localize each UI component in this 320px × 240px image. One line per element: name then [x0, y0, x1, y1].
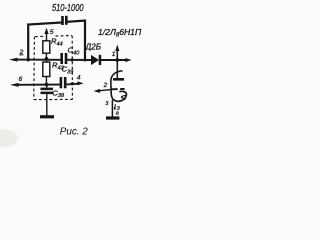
resistor R43 — [43, 62, 50, 77]
terminal arrow 6 (left) — [10, 83, 19, 87]
node dot at box edge on row A — [70, 58, 73, 61]
node dot at box edge on row B — [71, 82, 74, 85]
terminal arrow 5 (up from R44) — [46, 31, 48, 41]
wire row A (node 2 line) — [14, 59, 61, 61]
terminal arrow 4 (right) — [77, 81, 83, 85]
svg-text:1/2Л86Н1П: 1/2Л86Н1П — [98, 27, 142, 39]
svg-text:Д2Б: Д2Б — [85, 42, 102, 52]
node dot at anode junction — [115, 58, 119, 62]
diode D2B — [91, 55, 99, 65]
tube cathode curve — [118, 91, 127, 101]
tube heater curve — [122, 95, 127, 99]
svg-text:Рис. 2: Рис. 2 — [60, 127, 88, 138]
svg-text:6: 6 — [19, 76, 23, 83]
tube envelope arc — [111, 71, 123, 102]
dashed box (divider network) — [34, 36, 73, 100]
arrow up (to B+) — [116, 49, 118, 60]
capacitor C38 — [41, 88, 54, 95]
grid lead with arrow to node 2 — [98, 90, 112, 91]
node dot at rail drop on row A — [84, 59, 87, 62]
tube anode lead — [116, 60, 118, 78]
svg-text:510-1000: 510-1000 — [52, 3, 84, 14]
svg-text:4: 4 — [77, 75, 81, 82]
svg-text:2: 2 — [103, 82, 108, 89]
node dot at R44/R43 junction — [45, 57, 49, 61]
node dot at left rail junction — [26, 58, 30, 62]
ground (chassis bar under tube) — [106, 116, 119, 119]
tube grid (dashed) — [112, 88, 118, 90]
wire top rail with left and right vertical drops — [28, 23, 61, 60]
resistor R44 — [43, 41, 50, 53]
wire row B (node 6 line) — [15, 84, 60, 86]
capacitor C40 — [60, 53, 67, 64]
svg-text:5: 5 — [50, 29, 54, 36]
svg-text:1: 1 — [112, 51, 116, 58]
capacitor 510-1000 plates — [61, 16, 67, 25]
small arrow and label 3 at cathode — [114, 104, 117, 108]
capacitor C39 — [60, 77, 67, 88]
node dot at R43/C38 junction — [45, 83, 49, 87]
ground (chassis bar under C38) — [40, 115, 54, 118]
svg-text:a: a — [116, 111, 119, 117]
terminal arrow 2 (left) — [9, 58, 18, 62]
arrow right (output) — [125, 58, 131, 62]
cathode lead to chassis — [111, 100, 113, 117]
tube anode plate — [113, 78, 124, 81]
